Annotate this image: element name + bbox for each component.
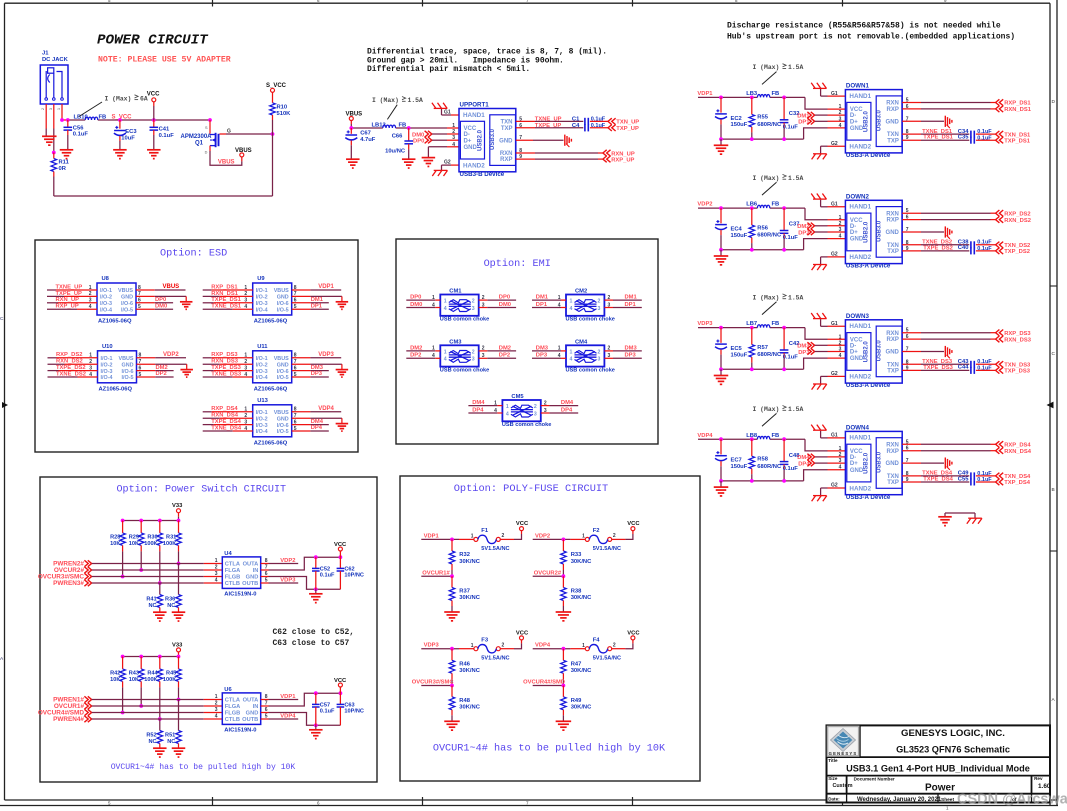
wire DM4 from U13	[310, 419, 328, 425]
wire RXN_DS4 to U13 pin 2	[203, 413, 253, 419]
resistor R49 30K/NC	[561, 686, 593, 722]
note discharge resistance	[727, 21, 1015, 41]
wire TXNE_UP / capacitor C1	[516, 117, 608, 126]
svg-text:CTLB: CTLB	[225, 717, 240, 723]
svg-text:LB6: LB6	[746, 202, 758, 208]
wire TXN pin8 / capacitor C43	[902, 359, 995, 368]
zone numbers top (cut off)	[108, 0, 947, 3]
svg-text:I/O-2: I/O-2	[101, 362, 113, 368]
svg-text:RXP_DS3: RXP_DS3	[1004, 331, 1031, 337]
svg-text:VDP4: VDP4	[697, 433, 713, 439]
net label VDP2	[697, 202, 712, 208]
svg-text:RXP_UP: RXP_UP	[611, 158, 634, 164]
note I(Max) 1.5A port 2	[753, 174, 804, 195]
svg-text:USB comon choke: USB comon choke	[566, 368, 615, 374]
wire DP1 right out of CM2	[604, 302, 641, 308]
node junctions bottom rail port 1	[719, 137, 786, 141]
box Option EMI	[396, 239, 658, 444]
svg-text:FB: FB	[399, 123, 407, 129]
connector J1 DC JACK	[40, 51, 68, 111]
svg-text:F1: F1	[481, 528, 489, 534]
wire GND pin7 port 3	[902, 346, 952, 358]
net label OVCUR4#/SMD	[523, 680, 565, 686]
svg-text:I/O-2: I/O-2	[100, 295, 112, 301]
svg-text:1.5A: 1.5A	[408, 97, 424, 104]
node junctions V33 rail (U6)	[121, 655, 181, 659]
net port DP2	[798, 229, 845, 237]
svg-text:NC: NC	[167, 739, 175, 745]
wire RXN pin5 port 1	[902, 102, 995, 104]
svg-text:C4: C4	[572, 123, 580, 129]
svg-text:A: A	[1052, 697, 1056, 703]
ground G1 port 1 (rake)	[811, 83, 845, 97]
wire VBUS rail upstream	[351, 127, 459, 129]
wire R28 column	[121, 551, 125, 578]
pin 6 stub U10	[137, 365, 156, 371]
svg-text:30K/NC: 30K/NC	[459, 704, 480, 710]
net port DM2	[797, 223, 845, 231]
svg-text:1: 1	[215, 558, 218, 564]
svg-text:VDP3: VDP3	[318, 352, 334, 358]
net label VDP3	[697, 321, 713, 327]
svg-text:DM1: DM1	[625, 295, 638, 301]
svg-text:0.1uF: 0.1uF	[783, 235, 799, 241]
svg-text:10K: 10K	[110, 541, 120, 547]
svg-text:USB3.0: USB3.0	[877, 220, 883, 242]
svg-text:GND: GND	[886, 119, 900, 125]
capacitor C67 4.7uF	[345, 128, 375, 159]
wire RXP pin6 port 4	[902, 450, 995, 452]
svg-text:2: 2	[839, 452, 842, 458]
svg-text:DP0: DP0	[155, 297, 166, 303]
note I(Max) 1.5A port 3	[753, 294, 804, 315]
svg-text:USB2.0: USB2.0	[864, 110, 870, 132]
svg-text:VDP3: VDP3	[280, 577, 296, 583]
common mode choke CM3	[440, 340, 489, 374]
svg-text:RXP: RXP	[887, 337, 899, 343]
svg-text:USB3-A Device: USB3-A Device	[846, 152, 891, 159]
svg-text:I/O-5: I/O-5	[277, 375, 289, 381]
wire TXP pin9 / capacitor C35	[902, 135, 995, 144]
svg-text:1: 1	[432, 295, 435, 301]
svg-text:VBUS: VBUS	[119, 356, 134, 362]
ground G1 port 4 (rake)	[811, 425, 845, 439]
wire OVCUR4#/SMD	[533, 684, 566, 688]
wire TXP pin9 / capacitor C40	[902, 245, 995, 254]
svg-text:APM2300A: APM2300A	[181, 134, 213, 140]
resistor R30 100K	[144, 521, 162, 552]
net port DM0 into upstream	[412, 131, 459, 139]
svg-text:V33: V33	[172, 642, 183, 648]
capacitor C48 0.1uF	[780, 439, 800, 481]
wire R31 column	[177, 551, 181, 565]
ground under J1	[42, 136, 57, 145]
svg-text:VDP1: VDP1	[280, 694, 296, 700]
note I(Max) 1.5A port 1	[753, 64, 804, 85]
svg-text:2: 2	[452, 129, 455, 135]
pin 6 stub U11	[292, 365, 311, 371]
pin 6 stub U8	[136, 298, 155, 304]
pin 8 stub U13	[292, 407, 311, 413]
svg-text:VCC: VCC	[627, 631, 640, 637]
resistor R58 680R/NC	[749, 439, 782, 481]
pin 7 stub U10	[137, 359, 156, 365]
wire DP0 from U8	[155, 297, 173, 303]
svg-text:CSDN @Arcswar: CSDN @Arcswar	[957, 792, 1067, 808]
wire bottom rail port 2	[721, 239, 845, 250]
wire DP2 right out of CM3	[479, 353, 516, 359]
svg-text:680R/NC: 680R/NC	[757, 464, 782, 470]
svg-text:3: 3	[244, 365, 247, 371]
svg-text:LB8: LB8	[746, 433, 758, 439]
wire DP3 right out of CM4	[604, 353, 641, 359]
svg-text:100K: 100K	[163, 541, 176, 547]
svg-text:Differential trace, space, tra: Differential trace, space, trace is 8, 7…	[367, 48, 607, 57]
capacitor EC3 10uF	[114, 120, 137, 150]
capacitor EC7 150uF	[715, 439, 748, 481]
svg-text:C52: C52	[320, 566, 330, 572]
svg-text:VCC: VCC	[334, 542, 347, 548]
svg-text:U4: U4	[224, 551, 232, 557]
title Option ESD	[160, 248, 227, 260]
wire GND pin7 port 4	[902, 458, 952, 470]
svg-text:VBUS: VBUS	[274, 356, 289, 362]
svg-text:2: 2	[502, 643, 505, 649]
svg-text:DP3: DP3	[798, 350, 810, 356]
title POWER CIRCUIT	[97, 33, 209, 49]
svg-text:VDP1: VDP1	[318, 284, 334, 290]
wire upstream GND pin7	[516, 135, 572, 147]
svg-text:R31: R31	[166, 535, 176, 541]
svg-text:1.60: 1.60	[1038, 783, 1051, 790]
svg-text:1: 1	[494, 400, 497, 406]
resistor R52 NC	[146, 719, 162, 748]
svg-text:RXP_DS4: RXP_DS4	[1004, 443, 1031, 449]
svg-text:DM4: DM4	[311, 419, 324, 425]
svg-text:1: 1	[582, 643, 585, 649]
wire VDP1 rail	[698, 97, 845, 109]
svg-text:HAND2: HAND2	[849, 254, 871, 261]
svg-text:TXP: TXP	[501, 126, 513, 132]
wire GND from U10	[155, 364, 187, 369]
ground port 3 cap bank	[714, 369, 729, 384]
wire TXNE_DS1 to U9 pin 4	[203, 304, 253, 310]
pin 7 stub U11	[292, 359, 311, 365]
resistor R10 510K	[270, 92, 291, 134]
net port RXP_UP	[603, 156, 635, 164]
svg-text:GND: GND	[121, 295, 133, 301]
svg-text:I/O-4: I/O-4	[101, 375, 113, 381]
net port TXP_UP	[608, 125, 639, 132]
wire RXP_UP pin9	[516, 158, 603, 160]
svg-text:TXPE_DS2: TXPE_DS2	[56, 365, 86, 371]
wire TXN pin8 / capacitor C49	[902, 471, 995, 480]
net label VBUS (wire)	[218, 159, 235, 165]
svg-text:U10: U10	[102, 344, 113, 350]
svg-text:2: 2	[839, 110, 842, 116]
svg-text:3: 3	[598, 306, 601, 312]
svg-text:D+: D+	[464, 138, 472, 144]
svg-text:680R/NC: 680R/NC	[757, 122, 782, 128]
svg-text:GENESYS LOGIC, INC.: GENESYS LOGIC, INC.	[901, 728, 1005, 739]
svg-text:4.7uF: 4.7uF	[360, 137, 376, 143]
svg-text:EC3: EC3	[125, 129, 137, 135]
resistor R47 30K/NC	[561, 649, 593, 686]
svg-text:510K: 510K	[277, 111, 292, 117]
wire DP3 from U11	[310, 371, 328, 377]
svg-text:RXN: RXN	[886, 331, 899, 337]
svg-text:RXN: RXN	[500, 151, 513, 157]
ground under C66	[402, 159, 416, 168]
svg-text:VDP2: VDP2	[163, 352, 179, 358]
net port RXN_DS4	[996, 448, 1032, 455]
svg-text:HAND1: HAND1	[849, 435, 871, 442]
svg-text:VBUS: VBUS	[346, 111, 363, 117]
net port RXN_DS3	[996, 336, 1032, 343]
svg-text:I/O-6: I/O-6	[277, 423, 289, 429]
svg-text:USB3-A Device: USB3-A Device	[846, 382, 891, 389]
svg-text:D: D	[205, 151, 208, 155]
svg-text:GND: GND	[499, 138, 513, 144]
note OVCUR pulled high (power switch)	[111, 763, 296, 772]
ground under C67	[346, 159, 360, 168]
svg-text:4: 4	[558, 353, 561, 359]
capacitor C66 10u/NC	[385, 128, 413, 159]
resistor R33 30K/NC	[561, 539, 593, 576]
svg-text:I/O-6: I/O-6	[277, 369, 289, 375]
svg-text:USB2.0: USB2.0	[477, 129, 483, 151]
svg-text:R48: R48	[459, 698, 470, 704]
svg-text:150uF: 150uF	[731, 122, 748, 128]
svg-text:GL3523 QFN76 Schematic: GL3523 QFN76 Schematic	[896, 745, 1010, 755]
resistor R55 680R/NC	[749, 97, 782, 139]
svg-text:TXP: TXP	[887, 249, 899, 255]
wire Q1 drain to VBUS	[210, 151, 242, 165]
svg-text:TXPE_DS1: TXPE_DS1	[923, 135, 953, 141]
wire TXNE_DS3 to U11 pin 4	[203, 371, 253, 377]
svg-text:D-: D-	[850, 455, 856, 461]
svg-text:AZ1065-06Q: AZ1065-06Q	[254, 440, 288, 446]
power switch U4 AIC1519N-0	[222, 551, 267, 598]
wire bottom rail port 1	[721, 128, 845, 139]
svg-text:GND: GND	[886, 350, 900, 356]
svg-text:I/O-1: I/O-1	[256, 410, 268, 416]
svg-text:I/O-4: I/O-4	[256, 429, 268, 435]
svg-text:DM0: DM0	[499, 302, 511, 308]
svg-text:4: 4	[494, 408, 497, 414]
resistor R37 30K/NC	[449, 576, 481, 612]
svg-text:0.1uF: 0.1uF	[320, 573, 335, 579]
net label VDP3	[424, 643, 440, 649]
svg-text:2: 2	[502, 533, 505, 539]
svg-text:FB: FB	[772, 433, 780, 439]
svg-text:4: 4	[570, 306, 573, 312]
title block company text	[896, 728, 1010, 755]
node junctions V33 rail (U4)	[121, 519, 181, 523]
svg-text:AZ1065-06Q: AZ1065-06Q	[98, 319, 132, 325]
svg-text:I (Max): I (Max)	[105, 95, 132, 102]
svg-text:TXPE_DS4: TXPE_DS4	[211, 419, 241, 425]
title block size/doc/rev row	[828, 776, 1051, 794]
svg-text:OVCUR1~4# has to be pulled hig: OVCUR1~4# has to be pulled high by 10K	[433, 743, 666, 755]
svg-text:NC: NC	[167, 603, 175, 609]
svg-text:4: 4	[89, 372, 92, 378]
svg-text:RXP: RXP	[500, 157, 512, 163]
svg-text:C66: C66	[392, 134, 403, 140]
svg-text:3: 3	[452, 135, 455, 141]
svg-text:VDP4: VDP4	[535, 643, 551, 649]
svg-text:2: 2	[598, 299, 601, 305]
connector DOWN4 USB3-A device block	[839, 425, 909, 501]
svg-text:HAND1: HAND1	[463, 112, 485, 119]
wire TXPE_DS1 to U9 pin 3	[203, 297, 253, 303]
wire VDP3 from U11	[310, 352, 341, 358]
title Option EMI	[484, 258, 551, 270]
net port TXN_DS2	[996, 242, 1031, 249]
svg-text:R45: R45	[166, 671, 176, 677]
wire OVCUR3#/SMC	[421, 684, 454, 688]
svg-text:RXN: RXN	[886, 211, 899, 217]
resistor R56 680R/NC	[749, 208, 782, 250]
svg-text:Option: EMI: Option: EMI	[484, 258, 551, 270]
capacitor C62 10P/NC	[337, 557, 364, 589]
title block frame	[827, 725, 1051, 802]
svg-text:C57: C57	[320, 702, 330, 708]
svg-text:USB2.0: USB2.0	[864, 341, 870, 363]
svg-text:VCC: VCC	[516, 521, 529, 527]
svg-text:30K/NC: 30K/NC	[571, 704, 592, 710]
svg-text:GND: GND	[246, 575, 259, 581]
wire DM2 from U10	[155, 365, 173, 371]
svg-text:DM3: DM3	[625, 345, 638, 351]
svg-text:Size: Size	[828, 776, 838, 781]
svg-text:1: 1	[570, 299, 573, 305]
svg-text:GND: GND	[277, 362, 289, 368]
pin 7 stub U9	[292, 291, 311, 297]
svg-text:4: 4	[839, 353, 842, 359]
svg-text:I/O-6: I/O-6	[277, 301, 289, 307]
svg-text:1: 1	[244, 407, 247, 413]
net port RXP_DS1	[996, 99, 1032, 106]
svg-text:NC: NC	[149, 603, 157, 609]
wire RXN pin5 port 3	[902, 332, 995, 334]
ferrite bead LB6	[746, 202, 779, 208]
net port TXN_DS3	[996, 361, 1031, 368]
svg-text:VDP3: VDP3	[424, 643, 440, 649]
svg-text:USB comon choke: USB comon choke	[440, 317, 489, 323]
svg-text:TXNE_UP: TXNE_UP	[535, 117, 562, 123]
svg-text:2: 2	[534, 404, 537, 410]
title Option POLY-FUSE CIRCUIT	[454, 483, 608, 495]
svg-text:RXN_DS4: RXN_DS4	[1004, 449, 1032, 455]
box Option ESD	[35, 240, 358, 452]
svg-text:FLGA: FLGA	[225, 704, 240, 710]
svg-text:I (Max): I (Max)	[753, 294, 780, 301]
wire DM0 right out of CM1	[479, 302, 516, 308]
svg-text:C41: C41	[159, 127, 170, 133]
svg-text:7: 7	[526, 801, 529, 806]
resistor R51 NC	[165, 700, 181, 749]
svg-text:F2: F2	[593, 528, 600, 534]
wire DP4 from U13	[310, 425, 328, 431]
svg-text:30K/NC: 30K/NC	[571, 595, 592, 601]
wire OVCUR1#	[421, 574, 454, 578]
svg-text:4: 4	[444, 357, 447, 363]
svg-text:I/O-5: I/O-5	[121, 307, 133, 313]
ferrite bead LB8	[746, 433, 779, 439]
resistor R48 30K/NC	[449, 686, 481, 722]
svg-text:1: 1	[215, 694, 218, 700]
svg-text:5V1.5A/NC: 5V1.5A/NC	[481, 656, 509, 662]
wire PWREN2# into U4 pin 1	[53, 558, 222, 568]
fuse F1 5V1.5A/NC	[471, 528, 510, 552]
svg-text:OUTB: OUTB	[242, 717, 258, 723]
svg-text:150uF: 150uF	[731, 352, 748, 358]
svg-text:3: 3	[89, 298, 92, 304]
svg-text:C62 close to C52,: C62 close to C52,	[273, 628, 355, 637]
fuse F2 5V1.5A/NC	[582, 528, 621, 552]
svg-text:D+: D+	[850, 119, 858, 125]
wire VDP1 from U6 pin8	[261, 694, 299, 700]
svg-text:VDP1: VDP1	[424, 533, 440, 539]
svg-text:FLGA: FLGA	[225, 568, 240, 574]
svg-text:D-: D-	[464, 132, 470, 138]
svg-text:2: 2	[89, 291, 92, 297]
wire DM4 right out of CM5	[541, 400, 578, 406]
svg-text:J1: J1	[42, 51, 49, 57]
wire TXN pin8 / capacitor C34	[902, 129, 995, 138]
svg-text:R49: R49	[571, 698, 582, 704]
svg-text:GENESYS: GENESYS	[829, 751, 858, 756]
svg-text:VCC: VCC	[627, 521, 640, 527]
wire DM4 left into CM5	[468, 400, 502, 406]
power port VCC (U6)	[334, 678, 347, 693]
wire TXPE_UP to U8 pin 2	[47, 291, 97, 297]
wire R43 column	[139, 687, 143, 707]
svg-text:TXN: TXN	[887, 362, 899, 368]
wire RXN_DS3 to U11 pin 2	[203, 359, 253, 365]
power port VCC (U4)	[334, 542, 347, 557]
capacitor C32 0.1uF	[780, 97, 800, 139]
wire DP3 left into CM4	[532, 353, 566, 359]
svg-text:GND: GND	[277, 295, 289, 301]
net port TXP_DS2	[996, 248, 1030, 255]
svg-text:DP1: DP1	[625, 302, 637, 308]
svg-text:D+: D+	[850, 461, 858, 467]
wire VDP2 from U10	[155, 352, 186, 358]
svg-text:GND: GND	[277, 416, 289, 422]
common mode choke CM5	[502, 394, 551, 428]
pin 6 stub U9	[292, 298, 311, 304]
svg-text:D-: D-	[850, 343, 856, 349]
svg-text:TXN_DS2: TXN_DS2	[1004, 243, 1030, 249]
node junctions cap rails (U6)	[314, 691, 342, 727]
svg-text:Option: Power Switch CIRCUIT: Option: Power Switch CIRCUIT	[116, 484, 286, 496]
svg-text:GND: GND	[850, 237, 864, 243]
svg-text:4: 4	[839, 123, 842, 129]
connector DOWN2 USB3-A device block	[839, 193, 909, 269]
net port RXP_DS4	[996, 441, 1032, 448]
svg-text:RXP_DS2: RXP_DS2	[56, 352, 82, 358]
wire TXNE_DS2 to U10 pin 4	[48, 371, 98, 377]
svg-text:S_VCC: S_VCC	[112, 115, 133, 121]
ferrite bead LB7	[746, 321, 779, 327]
svg-text:4: 4	[839, 234, 842, 240]
net port DM4	[797, 454, 845, 462]
ferrite bead LB10	[74, 115, 107, 121]
svg-text:R41: R41	[146, 597, 156, 603]
ground G2 port 4 (slash)	[812, 483, 846, 502]
